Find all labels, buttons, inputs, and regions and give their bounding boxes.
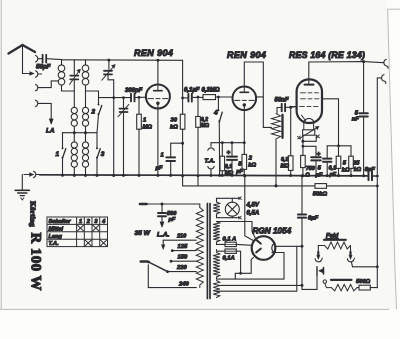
capacitor 5uF cathode bypass — [311, 157, 321, 177]
resistor 50kOhm — [315, 184, 327, 189]
svg-text:25: 25 — [352, 161, 360, 167]
dial lamp — [225, 198, 239, 217]
coil L3a — [71, 91, 77, 133]
variable capacitor C1 — [70, 60, 81, 91]
svg-text:Mittel: Mittel — [49, 226, 64, 232]
svg-text:Körting: Körting — [29, 201, 38, 227]
svg-text:750: 750 — [306, 166, 315, 172]
svg-text:RGN 1054: RGN 1054 — [253, 227, 292, 236]
wire lamp top — [217, 197, 242, 202]
wire tank1 bottom — [62, 90, 75, 92]
tap 125 — [171, 249, 196, 252]
svg-text:µF: µF — [329, 172, 337, 178]
wire V1 cathode — [157, 105, 159, 176]
resistor 750 Ohm cathode — [301, 155, 306, 177]
wire filament output loop — [275, 245, 302, 247]
resistor 1MOhm grid leak — [137, 96, 142, 177]
wire cathode tie V2 — [211, 142, 244, 144]
wire plug right to speaker line — [352, 263, 378, 267]
svg-text:220: 220 — [176, 265, 187, 271]
svg-text:0,1: 0,1 — [225, 164, 232, 170]
terminals T.A. — [208, 143, 214, 177]
capacitor 8uF HT filter — [298, 174, 317, 289]
svg-text:T.A.: T.A. — [205, 159, 216, 165]
plug field right — [347, 252, 354, 262]
antenna — [9, 45, 36, 75]
wire V3 grid entry — [293, 106, 297, 108]
tube V1 REN 904 — [107, 59, 169, 109]
svg-text:0,1 A: 0,1 A — [223, 237, 237, 243]
transformer winding S4 rectifier filament — [213, 281, 220, 298]
svg-text:REN 904: REN 904 — [227, 50, 266, 60]
svg-text:µF: µF — [155, 166, 163, 172]
terminal circle — [323, 280, 331, 288]
svg-text:MΩ: MΩ — [201, 123, 209, 129]
svg-text:Feld: Feld — [326, 234, 339, 240]
svg-text:8µF: 8µF — [308, 216, 319, 222]
switch 4 — [217, 97, 222, 177]
tube V3 RES 164 output pentode — [297, 62, 322, 123]
svg-text:240: 240 — [178, 282, 189, 288]
tap 240 — [148, 265, 196, 288]
transformer core — [207, 204, 210, 299]
node bus dots coils — [61, 174, 64, 177]
transformer winding S2 HT — [213, 222, 220, 243]
svg-text:0,5A: 0,5A — [247, 211, 260, 217]
wire V2 grid loop — [244, 62, 263, 127]
svg-text:T.A.: T.A. — [49, 241, 60, 247]
wire mains top — [147, 204, 200, 208]
wire anode rail V1 — [62, 59, 183, 62]
capacitor 300pF — [131, 94, 146, 102]
resistor 0,1MOhm — [220, 143, 225, 177]
switch mains voltage selector — [147, 261, 167, 272]
table switch positions — [47, 217, 108, 247]
switch 1 — [62, 133, 66, 176]
wire bus right of 8uF — [373, 175, 377, 177]
svg-text:50pF: 50pF — [36, 64, 51, 71]
svg-text:+: + — [227, 150, 231, 157]
ground socket with plug — [24, 171, 40, 177]
svg-text:300pF: 300pF — [125, 88, 143, 94]
svg-text:pF: pF — [168, 217, 176, 223]
svg-text:Schalter: Schalter — [49, 219, 72, 225]
svg-text:4: 4 — [213, 110, 218, 117]
wire V3 anode top — [309, 62, 384, 63]
wire anode 2 staircase — [235, 258, 253, 280]
svg-text:kΩ: kΩ — [170, 125, 178, 131]
resistor 25kOhm — [349, 146, 354, 177]
table row Mittel — [49, 225, 99, 232]
humbucking coil — [331, 280, 357, 291]
svg-text:110: 110 — [177, 234, 187, 240]
tap 220 — [166, 270, 196, 273]
transformer winding S3 — [213, 253, 220, 278]
coil L2 — [82, 60, 89, 91]
svg-text:µF: µF — [315, 173, 323, 179]
svg-text:nF: nF — [352, 117, 360, 123]
svg-text:0,1µF: 0,1µF — [184, 88, 200, 94]
svg-text:150: 150 — [178, 255, 188, 261]
fuse 0,1A upper — [217, 242, 252, 247]
wire S3 bottom row — [217, 253, 285, 280]
svg-text:L.A.: L.A. — [157, 232, 170, 239]
trimmer capacitor — [118, 96, 129, 177]
coil L1 — [58, 60, 65, 91]
svg-text:Ω: Ω — [304, 173, 310, 179]
transformer primary winding — [196, 208, 203, 288]
svg-text:4,5V: 4,5V — [246, 203, 260, 209]
wire grid column — [113, 80, 115, 176]
svg-text:MΩ: MΩ — [143, 125, 153, 131]
core bar beside resistor — [281, 115, 283, 138]
capacitor 50nF coupling — [277, 104, 296, 111]
svg-text:kΩ: kΩ — [354, 167, 362, 173]
capacitor 5uF electrolytic — [227, 143, 237, 177]
wire lamp bottom — [217, 214, 242, 219]
table text Schalter — [49, 219, 107, 225]
wire S2 top to anode — [217, 222, 256, 239]
antenna socket A1 — [36, 56, 42, 62]
capacitor 8uF on bus — [369, 172, 373, 180]
svg-text:50kΩ: 50kΩ — [313, 192, 328, 198]
coil L4a — [71, 133, 77, 176]
wire HT rail 2 — [183, 184, 378, 187]
rectifier tube RGN 1054 — [252, 236, 276, 260]
svg-text:0,1A: 0,1A — [223, 256, 235, 262]
resistor 0,2MOhm grid leak V3 — [288, 107, 293, 177]
resistor 30kOhm anode load — [180, 60, 185, 186]
antenna socket A2 with plug — [36, 71, 42, 77]
svg-text:1: 1 — [79, 219, 82, 225]
speaker jack 1 — [384, 59, 388, 68]
svg-text:1: 1 — [56, 151, 60, 158]
antenna socket A3 — [36, 81, 59, 91]
tap 110 — [161, 240, 196, 249]
transformer winding S1 lamp — [213, 202, 220, 214]
wire to anode resistor — [263, 126, 271, 128]
switch 3 — [96, 133, 100, 176]
svg-text:2: 2 — [91, 109, 96, 116]
wire V2 anode stub — [256, 96, 263, 98]
wire S4 tap row — [219, 284, 302, 286]
hum potentiometer — [298, 123, 320, 139]
plug speaker horizontal — [317, 267, 324, 276]
svg-text:0,1: 0,1 — [329, 166, 337, 172]
svg-text:3: 3 — [101, 151, 105, 158]
capacitor 5nF tone — [359, 62, 367, 178]
wire tank2 bottom — [86, 91, 99, 103]
speaker jack 2 — [377, 75, 385, 288]
table row TA — [49, 240, 107, 247]
coil L3b — [82, 91, 88, 133]
svg-text:1: 1 — [161, 153, 164, 159]
svg-text:LA: LA — [46, 128, 55, 135]
svg-text:30: 30 — [171, 118, 178, 124]
svg-text:+: + — [317, 152, 321, 158]
wire cathode node — [301, 135, 316, 156]
svg-text:125: 125 — [178, 244, 188, 250]
mains terminal L2 — [141, 260, 148, 263]
svg-text:0,2: 0,2 — [281, 157, 288, 163]
svg-text:1: 1 — [143, 118, 146, 124]
plug field left — [315, 252, 322, 262]
svg-text:50nF: 50nF — [275, 98, 289, 104]
svg-text:kΩ: kΩ — [248, 163, 256, 169]
capacitor 50pF — [43, 55, 62, 63]
capacitor 0,1uF — [323, 146, 331, 177]
capacitor 500pF mains antenna — [158, 204, 166, 228]
wire middle row — [63, 132, 98, 134]
svg-text:Lang: Lang — [49, 234, 63, 240]
svg-text:8µF: 8µF — [365, 167, 376, 173]
field coil Feld — [318, 240, 350, 252]
antenna socket A4 (LA) — [36, 100, 54, 124]
mains terminal L1 — [140, 203, 147, 206]
coil L4b — [82, 133, 88, 176]
tap 150 — [170, 260, 197, 263]
switch 2 — [97, 104, 102, 133]
wire grid V1 — [99, 97, 131, 99]
wire V3 screen — [322, 99, 339, 156]
wire ground bus — [40, 175, 369, 176]
svg-text:500Ω: 500Ω — [356, 279, 371, 285]
svg-text:35 W: 35 W — [135, 230, 151, 237]
ground — [15, 190, 29, 200]
wire top tie 0,1uF-5k-25k — [327, 145, 351, 147]
resistor 0,2MOhm grid stopper — [203, 95, 233, 100]
svg-text:MΩ: MΩ — [281, 164, 289, 170]
wire HT feed down — [245, 176, 253, 241]
tube V2 REN 904 — [233, 87, 257, 111]
variable capacitor C2 feedback — [102, 60, 116, 80]
node junction coils mid — [73, 131, 76, 134]
wire ground drop — [21, 175, 23, 190]
resistor 5kOhm screen — [336, 156, 341, 177]
resistor 0,2MOhm grid leak V2 — [196, 96, 201, 186]
capacitor 1uF cathode — [166, 142, 184, 177]
svg-text:R 100 W: R 100 W — [28, 233, 44, 291]
capacitor 0,1uF coupling — [183, 94, 203, 102]
resistor anode load V2 zigzag — [272, 108, 281, 188]
svg-text:REN 904: REN 904 — [134, 48, 173, 58]
resistor 2kOhm cathode V2 — [242, 106, 247, 177]
svg-text:RES 164 (RE 134): RES 164 (RE 134) — [289, 50, 365, 60]
fuse 0,1A lower — [217, 249, 241, 273]
svg-text:0,2MΩ: 0,2MΩ — [202, 88, 220, 94]
resistor 500 Ohm — [357, 285, 377, 290]
